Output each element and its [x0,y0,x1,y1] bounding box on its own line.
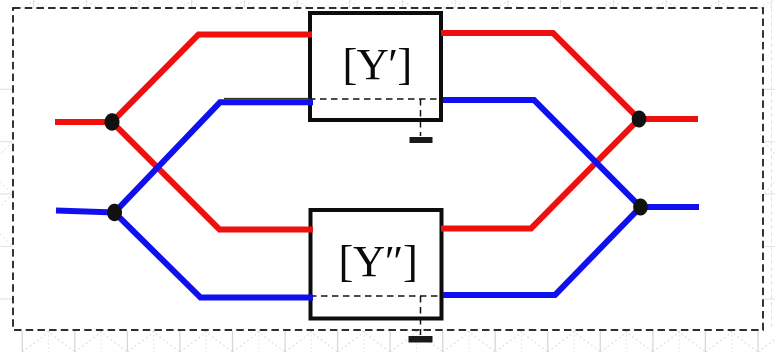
node D (right lower terminal) [633,199,648,216]
svg-text:[Y′]: [Y′] [342,39,411,89]
two-port box U2 [Y''] [311,210,442,319]
ground GND1 [410,137,433,143]
wire red: left terminal to U1 port 1 [55,35,312,123]
wire blue: U1 port 2' to right lower terminal [443,100,699,207]
node B (left lower terminal) [107,204,122,221]
ground GND2 [409,336,433,343]
two-port box U1 [Y'] [310,13,441,120]
wire red: U2 port 2 to right terminal [441,119,639,229]
wire blue: left lower terminal to U1 port 1' [56,102,313,212]
thin black trace above blue wire at U1 port 1' [224,98,310,100]
wire red: left terminal to U2 port 1 [112,122,313,230]
dashed reference line inside U2 [310,295,443,297]
dashed ground stem of U2 [420,296,422,335]
node A (left upper terminal) [105,113,120,130]
wire red: U1 port 2 to right terminal [441,33,698,119]
svg-text:[Y″]: [Y″] [338,236,417,286]
wire blue: U2 port 2' to right lower terminal [443,207,641,295]
dashed reference line inside U1 [309,98,442,100]
dashed ground stem of U1 [420,99,422,136]
node C (right upper terminal) [632,111,647,128]
wire blue: left lower terminal to U2 port 1' [115,213,314,298]
